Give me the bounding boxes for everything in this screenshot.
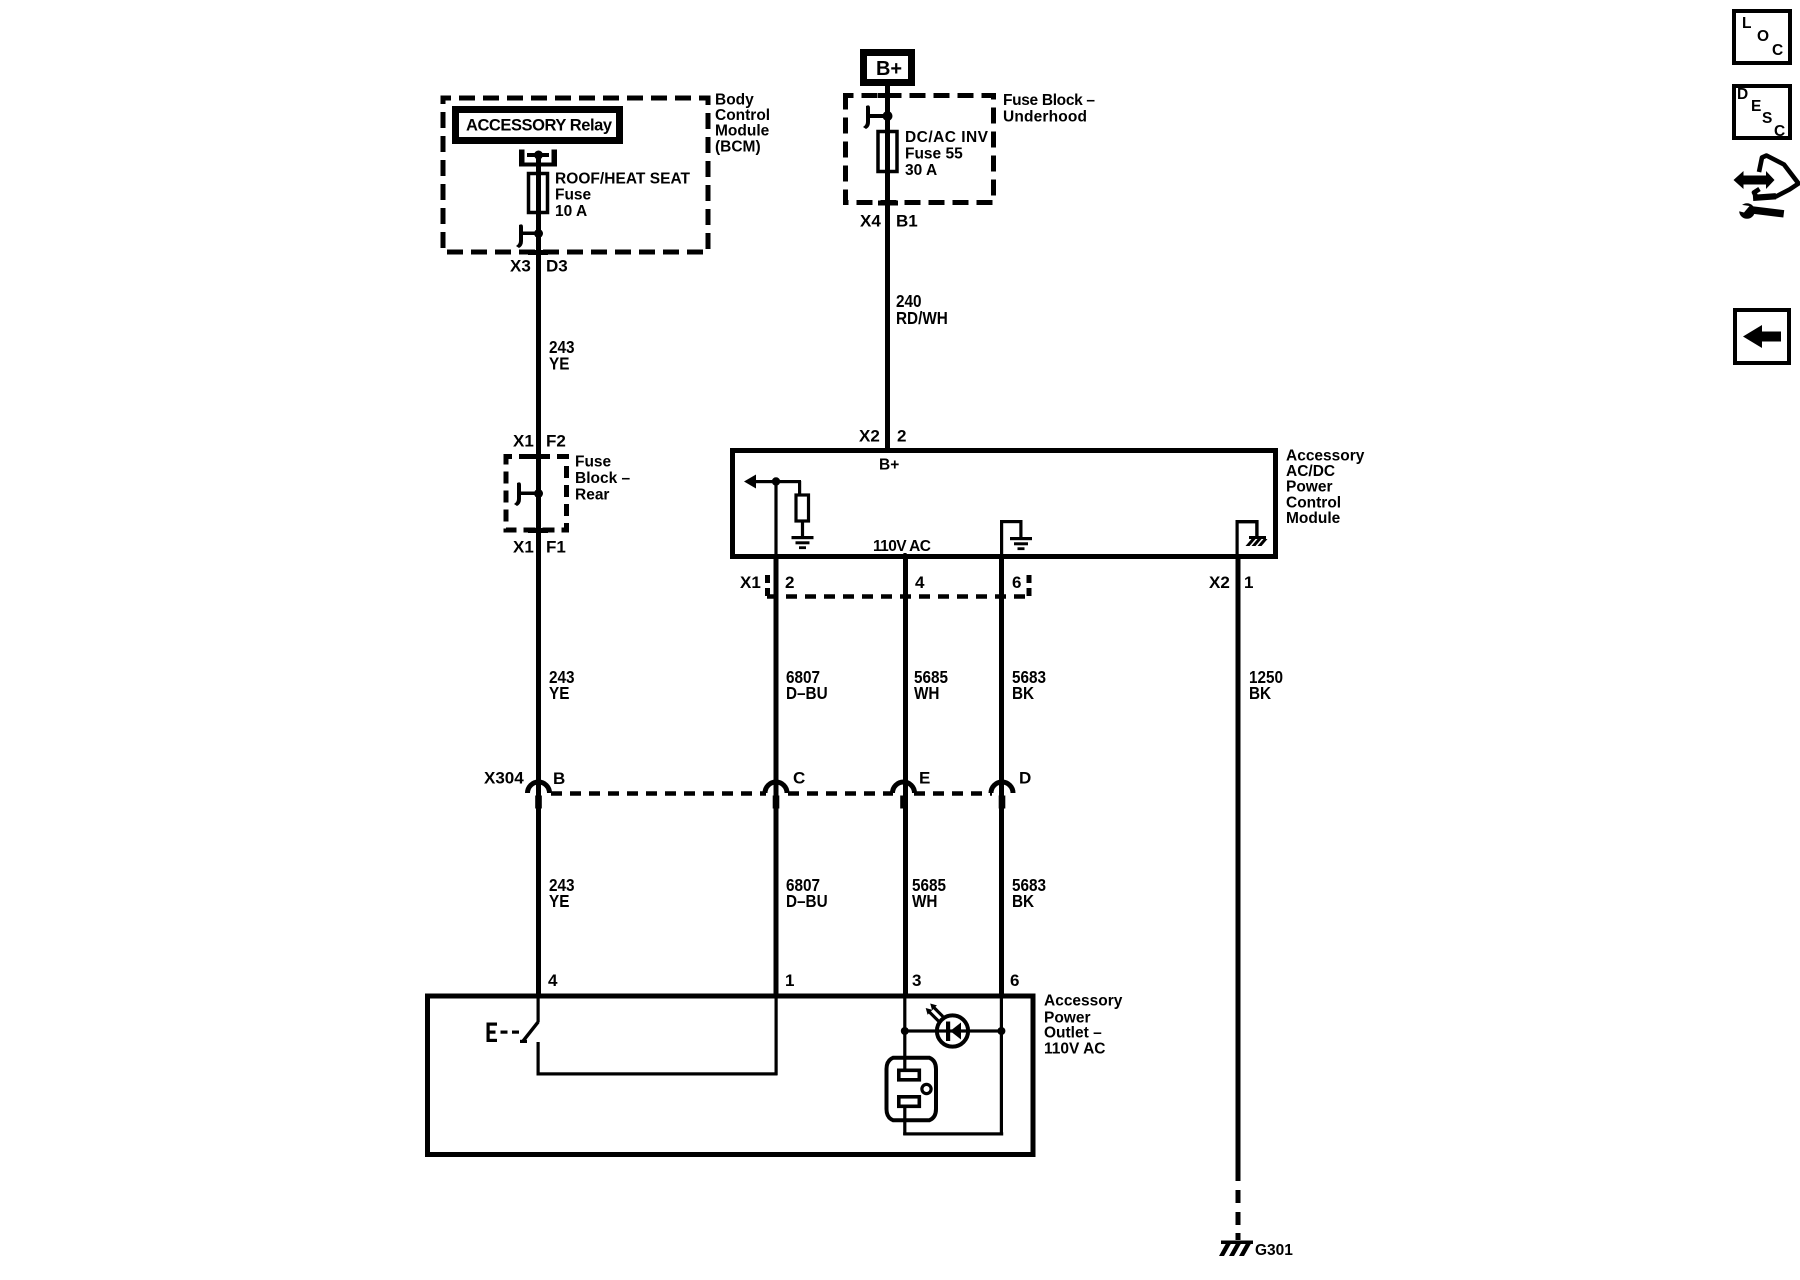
svg-text:1: 1 [785,971,794,990]
svg-text:110V AC: 110V AC [1044,1040,1105,1057]
svg-text:B: B [553,769,565,788]
svg-text:Accessory: Accessory [1286,447,1365,464]
svg-text:B1: B1 [896,211,918,230]
svg-text:4: 4 [915,573,925,592]
svg-text:X304: X304 [484,768,524,787]
svg-text:2: 2 [785,573,794,592]
svg-text:1: 1 [1244,573,1253,592]
svg-text:3: 3 [912,971,921,990]
svg-text:Fuse Block –: Fuse Block – [1003,92,1095,109]
svg-text:Module: Module [715,123,770,140]
svg-text:10 A: 10 A [555,203,587,220]
svg-text:S: S [1762,110,1772,127]
svg-text:BK: BK [1249,683,1271,703]
svg-text:X2: X2 [859,426,880,445]
svg-text:BK: BK [1012,891,1034,911]
svg-text:C: C [1772,42,1783,59]
svg-text:YE: YE [549,353,569,373]
svg-text:ACCESSORY Relay: ACCESSORY Relay [466,117,613,135]
svg-text:X2: X2 [1209,573,1230,592]
svg-text:X1: X1 [513,431,534,450]
svg-text:Fuse 55: Fuse 55 [905,145,963,162]
svg-text:L: L [1742,15,1751,32]
svg-text:D3: D3 [546,256,568,275]
svg-text:110V AC: 110V AC [873,538,931,555]
svg-text:2: 2 [897,426,906,445]
svg-text:6: 6 [1012,573,1021,592]
svg-text:(BCM): (BCM) [715,138,761,155]
svg-text:X4: X4 [860,211,881,230]
svg-text:YE: YE [549,891,569,911]
svg-text:30 A: 30 A [905,162,937,179]
svg-text:DC/AC INV: DC/AC INV [905,129,989,146]
svg-text:BK: BK [1012,683,1034,703]
svg-text:O: O [1757,28,1769,45]
svg-text:B+: B+ [879,456,899,473]
svg-text:C: C [793,768,805,787]
svg-text:4: 4 [548,971,558,990]
svg-text:C: C [1774,123,1785,140]
svg-text:AC/DC: AC/DC [1286,463,1335,480]
svg-text:Underhood: Underhood [1003,108,1087,125]
svg-text:Body: Body [715,91,754,108]
svg-text:X1: X1 [740,573,761,592]
svg-text:F2: F2 [546,431,566,450]
svg-text:G301: G301 [1255,1242,1293,1259]
svg-text:F1: F1 [546,537,566,556]
svg-text:B+: B+ [876,58,902,80]
svg-text:D–BU: D–BU [786,891,828,911]
svg-text:Fuse: Fuse [575,453,612,470]
svg-text:Outlet –: Outlet – [1044,1024,1102,1041]
svg-text:Fuse: Fuse [555,187,592,204]
svg-text:E: E [1751,98,1761,115]
svg-text:X3: X3 [510,256,531,275]
svg-text:WH: WH [914,683,939,703]
svg-text:D–BU: D–BU [786,683,828,703]
svg-text:WH: WH [912,891,937,911]
svg-text:6: 6 [1010,971,1019,990]
svg-text:ROOF/HEAT SEAT: ROOF/HEAT SEAT [555,170,691,187]
svg-text:RD/WH: RD/WH [896,308,948,328]
svg-text:Rear: Rear [575,486,609,503]
svg-text:E: E [919,768,930,787]
svg-text:Control: Control [1286,494,1341,511]
svg-text:D: D [1019,768,1031,787]
svg-text:D: D [1737,86,1748,103]
svg-text:Module: Module [1286,510,1341,527]
svg-text:Accessory: Accessory [1044,992,1123,1009]
svg-text:Block –: Block – [575,470,631,487]
svg-text:Power: Power [1286,479,1333,496]
svg-text:YE: YE [549,683,569,703]
svg-text:Control: Control [715,107,770,124]
svg-text:X1: X1 [513,537,534,556]
